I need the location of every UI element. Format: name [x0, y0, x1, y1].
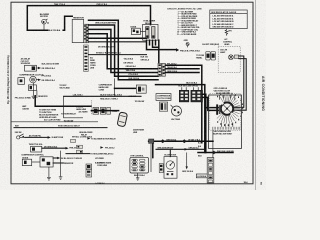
compressor harness caption: [99, 85, 113, 92]
wire through C-100: [91, 110, 118, 112]
wire: control head ground: [137, 173, 139, 177]
wire: to ign switch: [64, 110, 83, 117]
connector pin stubs up: [182, 87, 198, 90]
wire: feed elbow to junction: [35, 96, 91, 106]
amp gauge caption: [22, 105, 29, 110]
switch position labels above: [214, 88, 231, 95]
blower motor M: [42, 19, 49, 30]
gauge wire table top right: [210, 10, 247, 29]
wire: relay ground drop: [48, 167, 50, 177]
wire: BLK 150 to trunk: [156, 85, 205, 153]
compressor body: [29, 85, 37, 91]
wires: relay pin drops: [147, 40, 177, 63]
high blower relay caption: [79, 132, 93, 136]
heater control head assembly: [130, 155, 149, 173]
wires: clutch drops: [33, 83, 37, 98]
wires: resistor outputs staircase to the right: [89, 20, 159, 80]
trunk drop to control head bold: [205, 108, 207, 153]
arrowhead compressor feed: [38, 79, 41, 81]
arrowhead solenoid feed: [66, 147, 69, 150]
dash harness connector (tall): [207, 158, 214, 183]
wire: light blue branch: [63, 96, 65, 110]
diamond connector a on row 1: [160, 139, 165, 143]
cut-out relay K2: [25, 65, 39, 71]
wire: to hi blower row: [66, 153, 90, 155]
wires: connectors to switch trunk: [203, 94, 222, 110]
page outer right edge line: [255, 0, 257, 190]
wire: connector to feed line: [212, 153, 214, 158]
inline connector row a: [71, 139, 76, 142]
wire: main feed trunk top: [27, 6, 150, 31]
wire: accessory feed row: [14, 127, 107, 129]
wire: coil to arrow: [36, 79, 38, 81]
cigar lighter lamp caption: [220, 50, 228, 54]
connector strip below compressor caption: [159, 102, 167, 111]
wire: blower motor to resistor (PPL): [63, 16, 72, 30]
clutch coil L2: [30, 76, 37, 83]
page background: [0, 0, 266, 190]
wire: blower ground bus BLK 150: [27, 29, 47, 31]
ground chevron 1: [47, 177, 51, 180]
vacuum actuator (tilted canister): [117, 112, 127, 127]
bold feed line under switch box: [198, 152, 233, 154]
blower-vacuum switch enclosure: [209, 95, 242, 149]
ground chevrons compressor: [32, 96, 36, 98]
diamond connector b on row 1: [182, 139, 187, 143]
wire 5: [89, 37, 147, 39]
A/C control head caption: [223, 38, 233, 46]
wire: stub to inline connector: [115, 87, 137, 89]
wire: switch bottom lead: [212, 130, 214, 153]
grd drop right of switch: [182, 153, 194, 173]
fuse F1 pair: [196, 51, 215, 60]
circuit legend rows: [177, 10, 201, 36]
junction diamond on feed line: [212, 151, 216, 155]
wire 3: [89, 29, 159, 72]
A/C cut-out relay caption (left cluster): [21, 57, 31, 65]
compressor control relay K3: [32, 157, 53, 167]
fan tip terminal marks: [217, 92, 243, 126]
wire 7 connector feed: [89, 54, 147, 56]
wires: lamp feed down right side: [232, 56, 246, 110]
blower switch S2: [164, 149, 177, 178]
wire label column mid staircase: [124, 58, 141, 80]
to dist hot terminal text block: [39, 110, 59, 119]
hub: [221, 102, 233, 114]
wire 4: [89, 34, 159, 69]
wire 6 harness feed: [89, 41, 147, 43]
arrowheads relay outputs: [57, 157, 60, 159]
wire labels right of connector pair: [167, 63, 178, 73]
arrowhead row 2: [185, 148, 188, 151]
wire: ign to fuse panel: [25, 136, 48, 138]
clutch coil box: [18, 78, 25, 85]
wires: relay outputs: [53, 158, 63, 163]
connector bars at switch feed: [216, 104, 220, 114]
ground stud GRD: [184, 40, 190, 47]
wire: junction feed lower: [64, 95, 141, 97]
to dist lead text: [59, 85, 70, 89]
engine harness caption: [76, 107, 88, 114]
lamp L1: [229, 55, 239, 60]
inline connector row b: [77, 145, 83, 148]
switch terminal tick row: [213, 127, 240, 130]
caption a/c harn conn: [97, 161, 112, 166]
multi-pin connector block A (dark): [179, 90, 189, 102]
fan of contacts: [217, 94, 241, 123]
arrowhead on PNK wire: [176, 48, 179, 51]
wire: drop to head right: [150, 144, 152, 172]
bulkhead connector row C-100: [93, 107, 110, 114]
ignition switch S1: [15, 132, 25, 139]
connector block left end row 1: [149, 139, 154, 143]
loom caption box: [196, 174, 208, 178]
rotary vacuum-blower switch: [217, 92, 243, 126]
resistor block (blower resistor): [72, 18, 88, 43]
diode assembly left of relay: [130, 27, 146, 35]
switch feed stubs top: [220, 95, 235, 100]
vacuum tank circle: [171, 105, 182, 116]
multi-pin connector block B (dark): [191, 90, 203, 102]
wires: connector pair to right trunk: [165, 65, 201, 143]
hi blower relay U1: [143, 21, 158, 41]
resistor connector pin strip: [84, 24, 89, 43]
connector between head and switch: [159, 164, 163, 173]
engine harness boundary dashed: [90, 100, 92, 115]
dashed inner boundary: [210, 94, 241, 131]
ground chevron 2: [59, 177, 63, 180]
wire: solenoid feed: [42, 147, 66, 149]
arrowhead PPL row: [100, 146, 103, 149]
switch bottom stubs: [221, 123, 232, 127]
diode D1: [22, 157, 31, 165]
harness connector stack bottom center: [86, 164, 92, 177]
in-line connector mid band: [136, 85, 146, 93]
wire row 2: [156, 148, 205, 150]
A/C harness connector pair mid: [158, 63, 165, 76]
section divider line: [11, 121, 98, 123]
arrowhead fuse feed: [48, 136, 51, 139]
harness boundary line: [114, 78, 116, 97]
bulkhead connector column below resistor: [84, 45, 96, 71]
inline connector row c: [77, 150, 83, 153]
compressor clutch conn caption box: [156, 94, 171, 101]
control head dashed enclosure: [218, 46, 240, 72]
wire labels left column mid: [141, 56, 150, 61]
wire row 1 to control head (bold): [149, 141, 213, 157]
arrowhead clutch feed: [38, 67, 41, 69]
wire 2: [89, 25, 159, 76]
throttle solenoid box: [31, 146, 42, 152]
scan grain overlay: [0, 0, 266, 190]
arrow to blower motor relay: [87, 137, 90, 139]
page frame border: [11, 2, 253, 184]
wire: solenoid ground drop: [60, 151, 62, 177]
wire 1: [89, 20, 159, 80]
LPS resistor symbol: [225, 29, 232, 36]
